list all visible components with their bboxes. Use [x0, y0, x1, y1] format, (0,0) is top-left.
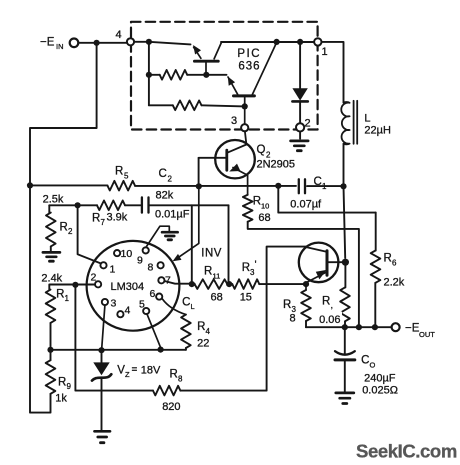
svg-text:INV: INV: [201, 248, 222, 260]
svg-text:0.07µf: 0.07µf: [290, 199, 322, 211]
svg-text:2: 2: [168, 175, 173, 184]
svg-text:C: C: [159, 168, 167, 180]
svg-text:0.025Ω: 0.025Ω: [362, 385, 398, 397]
svg-text:4: 4: [125, 305, 131, 317]
svg-text:2: 2: [305, 118, 311, 130]
svg-text:4: 4: [116, 29, 122, 41]
svg-text:6: 6: [392, 259, 397, 268]
svg-text:OUT: OUT: [419, 330, 435, 339]
svg-text:R: R: [58, 377, 66, 389]
svg-text:2.2k: 2.2k: [384, 277, 405, 289]
svg-text:−E: −E: [405, 323, 420, 335]
svg-text:R: R: [197, 321, 205, 333]
svg-text:3: 3: [231, 115, 237, 127]
svg-text:L: L: [364, 113, 370, 125]
svg-text:10: 10: [261, 202, 269, 211]
svg-text:15: 15: [240, 292, 252, 304]
svg-text:C: C: [314, 176, 322, 188]
svg-text:R: R: [283, 299, 291, 311]
svg-text:11: 11: [213, 272, 221, 281]
svg-text:636: 636: [238, 61, 260, 73]
svg-text:5: 5: [124, 172, 129, 181]
svg-text:C: C: [361, 355, 369, 367]
svg-text:3.9k: 3.9k: [107, 212, 128, 224]
svg-text:PIC: PIC: [237, 48, 261, 60]
svg-text:7: 7: [101, 218, 106, 227]
svg-text:2.4k: 2.4k: [41, 273, 62, 285]
svg-text:820: 820: [162, 401, 180, 413]
svg-text:8: 8: [290, 313, 296, 325]
svg-text:6: 6: [150, 288, 156, 300]
svg-text:−E: −E: [40, 37, 55, 49]
svg-text:1: 1: [65, 294, 70, 303]
svg-text:9: 9: [137, 255, 143, 267]
svg-text:1: 1: [322, 46, 328, 58]
svg-text:O: O: [370, 361, 376, 370]
svg-text:22: 22: [197, 338, 209, 350]
svg-text:': ': [255, 259, 257, 271]
svg-text:68: 68: [211, 292, 223, 304]
svg-text:=: =: [132, 365, 138, 376]
svg-text:R: R: [204, 266, 212, 278]
svg-text:0.01µF: 0.01µF: [155, 209, 190, 221]
svg-text:10: 10: [121, 248, 133, 260]
svg-text:,: ,: [331, 300, 334, 310]
svg-text:240µF: 240µF: [364, 373, 396, 385]
svg-text:R: R: [115, 166, 123, 178]
svg-text:8: 8: [148, 262, 154, 274]
svg-text:L: L: [191, 302, 195, 311]
svg-text:1: 1: [322, 182, 327, 191]
svg-text:2N2905: 2N2905: [257, 159, 296, 171]
svg-text:Z: Z: [125, 370, 130, 379]
svg-text:R: R: [384, 253, 392, 265]
svg-text:C: C: [182, 297, 190, 309]
svg-text:1k: 1k: [55, 393, 67, 405]
svg-text:SeekIC.com: SeekIC.com: [356, 441, 457, 462]
svg-text:68: 68: [258, 212, 270, 224]
svg-text:LM304: LM304: [111, 281, 145, 293]
svg-text:0.06: 0.06: [319, 314, 340, 326]
svg-text:2.5k: 2.5k: [43, 194, 64, 206]
svg-text:R: R: [322, 296, 330, 308]
svg-text:R: R: [56, 289, 64, 301]
svg-text:22µH: 22µH: [364, 125, 391, 137]
svg-text:2: 2: [91, 272, 97, 284]
svg-text:1: 1: [110, 264, 116, 276]
svg-text:IN: IN: [56, 42, 64, 51]
svg-text:3: 3: [111, 298, 117, 310]
svg-text:8: 8: [178, 375, 183, 384]
svg-text:R: R: [242, 262, 250, 274]
svg-text:5: 5: [139, 299, 145, 311]
svg-text:7: 7: [165, 275, 171, 287]
svg-text:4: 4: [206, 327, 211, 336]
svg-text:R: R: [92, 213, 100, 225]
svg-text:R: R: [60, 222, 68, 234]
svg-text:Q: Q: [257, 144, 266, 156]
svg-text:R: R: [253, 196, 261, 208]
svg-text:18V: 18V: [141, 365, 161, 377]
svg-text:82k: 82k: [156, 190, 174, 202]
svg-text:9: 9: [67, 382, 72, 391]
svg-text:R: R: [170, 369, 178, 381]
svg-text:2: 2: [68, 227, 73, 236]
